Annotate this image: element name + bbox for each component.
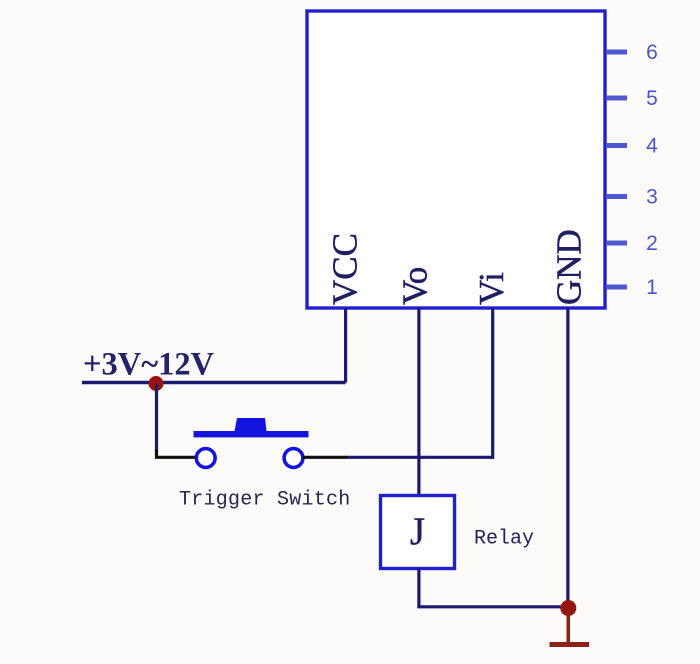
svg-text:VCC: VCC — [326, 233, 365, 305]
svg-text:6: 6 — [646, 41, 658, 64]
ground — [550, 608, 590, 645]
junction ground node — [560, 600, 576, 616]
wire switch right terminal — [303, 456, 348, 459]
wire GND pin down — [566, 308, 569, 607]
pin 1 — [606, 276, 658, 299]
svg-text:5: 5 — [646, 87, 658, 110]
svg-text:Vo: Vo — [396, 267, 435, 305]
relay box J — [381, 496, 455, 569]
trigger switch S1 — [194, 418, 309, 467]
svg-text:GND: GND — [550, 229, 589, 305]
wire relay bottom down — [417, 569, 420, 607]
wire relay to ground node — [417, 605, 568, 608]
svg-text:Vi: Vi — [472, 272, 511, 305]
pin 2 — [606, 232, 658, 255]
wire +3V rail — [82, 381, 346, 385]
svg-text:J: J — [410, 510, 425, 553]
IC module U1 body — [307, 11, 605, 308]
wire Vo pin down to relay — [417, 308, 420, 496]
pin 5 — [606, 87, 658, 110]
wire Vi pin down — [491, 308, 494, 459]
wire junction down — [155, 384, 158, 453]
svg-text:+3V~12V: +3V~12V — [83, 347, 215, 383]
wire to switch left terminal — [157, 450, 196, 457]
pin 3 — [606, 186, 658, 209]
svg-text:2: 2 — [646, 232, 658, 255]
svg-text:Relay: Relay — [474, 528, 534, 551]
svg-text:3: 3 — [646, 186, 658, 209]
junction +3V node — [149, 376, 164, 391]
svg-text:Trigger Switch: Trigger Switch — [179, 489, 351, 512]
svg-text:4: 4 — [646, 135, 658, 158]
svg-text:1: 1 — [646, 276, 658, 299]
pin 6 — [606, 41, 658, 64]
wire to Vi — [347, 456, 493, 459]
wire VCC pin down — [344, 308, 347, 383]
pin 4 — [606, 135, 658, 158]
